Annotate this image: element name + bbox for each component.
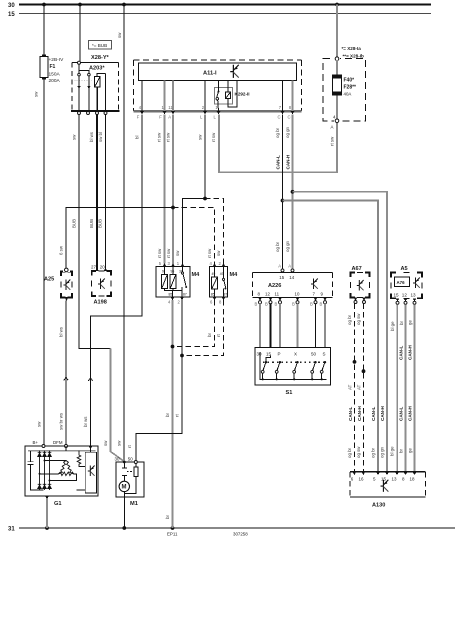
svg-text:AT: AT	[348, 384, 353, 390]
svg-text:18: 18	[410, 476, 416, 481]
svg-text:15: 15	[394, 293, 400, 298]
svg-text:A: A	[288, 264, 291, 269]
node BUB / pin A wire	[171, 206, 175, 210]
svg-text:6 sw: 6 sw	[59, 245, 64, 255]
G1 regulator glyph	[88, 466, 95, 477]
svg-text:BUB: BUB	[98, 219, 103, 228]
svg-text:30: 30	[179, 270, 183, 274]
A226 bottom plugs	[258, 298, 262, 301]
A130 top plugs	[353, 472, 357, 475]
note box *= BUB	[89, 41, 112, 50]
S1 15 hook link	[266, 356, 271, 362]
svg-text:CAN-H: CAN-H	[357, 406, 362, 421]
svg-text:bl ge: bl ge	[390, 321, 395, 331]
fuse F40/F28	[333, 60, 356, 121]
svg-text:13: 13	[411, 293, 417, 298]
svg-text:C: C	[288, 115, 291, 120]
A203 top connector circle	[78, 61, 81, 64]
svg-text:10: 10	[295, 292, 300, 297]
svg-text:A130: A130	[372, 503, 385, 509]
svg-text:150A: 150A	[49, 71, 61, 77]
A25 top connector	[63, 268, 70, 272]
svg-text:B: B	[310, 302, 313, 307]
G1 internal top bus	[28, 450, 96, 452]
A25 glyph	[64, 280, 71, 291]
wire A226 pin8 to S1 30	[259, 304, 261, 352]
svg-text:og br: og br	[275, 127, 280, 138]
svg-text:B: B	[275, 302, 278, 307]
M4 internal switch	[182, 267, 184, 273]
fuse F1	[40, 55, 64, 84]
M4 variant internal switch	[223, 267, 225, 279]
svg-text:og br: og br	[275, 241, 280, 252]
M4 variant top plugs	[213, 263, 217, 266]
svg-text:A: A	[168, 115, 171, 120]
svg-text:P: P	[278, 352, 281, 357]
svg-text:B+: B+	[33, 440, 39, 445]
wire A203 pin4 sw bl to A198 pin20	[105, 115, 107, 272]
wire rail30 to F1 to G1 B+ (sw)	[43, 5, 45, 447]
svg-text:15: 15	[381, 476, 387, 481]
wire A5 pin12 br to A130 pin8	[405, 304, 407, 472]
svg-text:11: 11	[168, 105, 173, 110]
A25 bottom plug	[65, 298, 69, 301]
A67 bottom plugs	[354, 298, 358, 301]
svg-text:CAN-H: CAN-H	[380, 406, 385, 421]
node on A67 CAN-H	[362, 369, 366, 373]
A11-I glyph	[230, 65, 239, 78]
relay coil	[225, 92, 230, 99]
M4 variant bottom plugs	[213, 297, 217, 300]
A5 bottom plugs	[396, 298, 400, 301]
G1 output plug	[45, 496, 49, 499]
wire A226 pin7 to S1 50	[315, 304, 317, 361]
ignition switch S1	[255, 348, 331, 397]
svg-text:C: C	[278, 115, 281, 120]
S1 switch X	[296, 361, 298, 363]
svg-text:X: X	[294, 352, 297, 357]
relay K292-II	[215, 88, 250, 105]
svg-text:A203*: A203*	[89, 66, 105, 72]
wire node to M4 pin1	[183, 199, 206, 264]
A226 bottom connector circles	[259, 301, 262, 304]
svg-text:49: 49	[212, 272, 216, 276]
M4 bottom plugs	[171, 297, 175, 300]
wire M4 pin2 rt to M1 50	[136, 300, 182, 460]
svg-text:sw bl: sw bl	[98, 132, 103, 142]
svg-text:sw: sw	[175, 250, 180, 256]
svg-text:13: 13	[392, 476, 398, 481]
svg-text:sw: sw	[117, 32, 122, 38]
node CAN-L branch	[281, 199, 285, 203]
svg-text:rt sw: rt sw	[157, 132, 162, 142]
svg-text:sw: sw	[197, 134, 202, 140]
node on rail 31 at G1	[45, 526, 49, 530]
svg-text:og sw: og sw	[356, 313, 361, 325]
A11-I body	[139, 63, 297, 81]
svg-text:sw: sw	[103, 440, 108, 446]
svg-text:A198: A198	[94, 300, 107, 306]
ECU A198	[92, 271, 111, 306]
A11-I internal drop pin8	[292, 81, 294, 112]
svg-text:EP11: EP11	[167, 532, 178, 537]
svg-text:F40*: F40*	[344, 78, 355, 84]
wire pin2L sw to fan node	[204, 115, 206, 199]
svg-text:br ws: br ws	[83, 416, 88, 427]
wire pinF rt sw to M4 pin5	[164, 115, 166, 264]
svg-text:11: 11	[275, 292, 280, 297]
svg-text:50: 50	[311, 352, 317, 357]
G1 resistor	[77, 451, 85, 467]
wire pin1L rt sw to X28 fuse	[219, 115, 337, 173]
A130 glyph	[381, 480, 389, 492]
svg-text:ge: ge	[408, 320, 413, 325]
svg-text:A: A	[331, 124, 334, 129]
svg-text:M1: M1	[130, 501, 138, 507]
dashed wire A67 CAN-H to A130 pin16	[363, 304, 365, 472]
svg-text:M4: M4	[192, 272, 201, 278]
relay contact	[218, 91, 220, 93]
node on A67 CAN-L	[353, 360, 357, 364]
starter M1	[116, 462, 144, 507]
svg-text:96: 96	[171, 270, 175, 274]
ECU A11-I dashed boundary	[134, 60, 302, 111]
svg-text:sw: sw	[117, 440, 122, 446]
S1 common bus	[260, 352, 327, 379]
dashed wire A67 CAN-L to A130 pin6	[354, 304, 356, 472]
dashed wire node to M4 variant pin2	[205, 199, 224, 264]
rail 30	[8, 3, 431, 9]
svg-text:85: 85	[211, 292, 215, 296]
svg-text:B: B	[292, 302, 295, 307]
svg-text:CAN-L: CAN-L	[276, 155, 281, 169]
svg-text:M4: M4	[230, 272, 239, 278]
svg-text:50: 50	[128, 457, 133, 462]
inline connector arrow	[64, 378, 68, 381]
wire M4 pin4 br to rail31	[172, 300, 174, 528]
svg-text:+2B-IV: +2B-IV	[49, 57, 65, 63]
svg-text:ge: ge	[408, 448, 413, 453]
A203 switch contact 1	[78, 73, 81, 76]
svg-text:og br: og br	[347, 314, 352, 325]
A11-I internal drop pin4	[141, 81, 143, 112]
svg-text:A: A	[278, 264, 281, 269]
svg-text:S1: S1	[286, 390, 293, 396]
svg-text:DFM: DFM	[53, 440, 63, 445]
dashed wire M4 variant pin8 to rt node	[182, 300, 224, 355]
A11-I internal drop pin1F	[164, 81, 166, 112]
svg-text:X28-Y*: X28-Y*	[91, 55, 110, 61]
relay coil return	[228, 81, 237, 108]
svg-text:rt sw: rt sw	[166, 248, 171, 258]
svg-text:F: F	[159, 115, 162, 120]
M4 top plugs	[163, 263, 167, 266]
svg-text:CAN-H: CAN-H	[407, 345, 412, 360]
svg-text:CAN-L: CAN-L	[348, 407, 353, 421]
wire A25 to G1 DFM (bl ws)	[65, 301, 67, 446]
relay feed wires	[219, 81, 229, 93]
resistor unit M4	[156, 267, 200, 298]
svg-text:9: 9	[162, 270, 164, 274]
svg-text:og br: og br	[347, 447, 352, 458]
svg-text:og gn: og gn	[285, 240, 290, 252]
svg-text:sw: sw	[37, 421, 42, 427]
M1 solenoid coil	[134, 467, 138, 477]
alternator G1	[25, 446, 98, 507]
node on rail 30 at F1	[42, 3, 46, 7]
A67 glyph	[357, 280, 364, 291]
svg-text:br: br	[399, 321, 404, 325]
svg-text:27: 27	[91, 265, 96, 270]
svg-text:15: 15	[279, 275, 284, 280]
svg-text:sw: sw	[216, 250, 221, 256]
A203 switch contact 2	[88, 73, 91, 76]
G1 terminal L plug	[89, 446, 93, 449]
G1 stator delta winding	[58, 461, 73, 476]
svg-text:S: S	[323, 352, 326, 357]
svg-text:og sw: og sw	[356, 446, 361, 458]
connector circle top of fuse box	[334, 57, 340, 61]
wire A203 pin1 sw to M1 30	[79, 115, 111, 349]
wire CAN-H branch to A130 pin15	[293, 192, 388, 472]
A5 glyph	[413, 278, 420, 289]
svg-text:B: B	[320, 302, 323, 307]
inline connector arrow	[88, 378, 92, 381]
wire rail30 to fuse F40	[336, 5, 338, 58]
svg-text:12: 12	[265, 292, 270, 297]
svg-text:F28**: F28**	[344, 85, 357, 91]
A11-I internal drop pin11A	[172, 81, 174, 112]
ECU A226	[253, 273, 333, 298]
wire rail30 to M1 30 (sw)	[123, 5, 125, 462]
wire A226 pin9 to S1 S	[324, 304, 326, 361]
M4 internal resistor 2	[172, 267, 174, 275]
node on rail 31 at M1	[122, 526, 126, 530]
svg-text:A5: A5	[401, 266, 408, 272]
svg-text:sw: sw	[34, 91, 39, 97]
sensor A25	[44, 272, 72, 298]
wire A203 pin3 bl ws to A198 pin27	[96, 115, 98, 272]
S1 switch S	[324, 361, 326, 363]
rail 15	[8, 12, 431, 18]
svg-text:sw br ws: sw br ws	[59, 412, 64, 430]
svg-text:rt sw: rt sw	[207, 248, 212, 258]
svg-text:200A: 200A	[49, 78, 61, 84]
M4 internal bus	[165, 287, 183, 297]
fuse holder X28 dashed box	[323, 59, 366, 121]
A198 glyph	[98, 279, 105, 290]
A226 glyph	[311, 279, 318, 290]
M1 solenoid contact	[122, 462, 127, 481]
S1 switch P	[279, 361, 281, 363]
svg-text:40A: 40A	[344, 92, 352, 97]
svg-text:A67: A67	[352, 266, 362, 272]
svg-text:rt sw: rt sw	[329, 136, 334, 146]
svg-text:B: B	[255, 302, 258, 307]
svg-text:**= X28-Ib: **= X28-Ib	[343, 54, 365, 59]
node CAN-H branch	[291, 190, 295, 194]
svg-text:A76: A76	[397, 280, 406, 285]
svg-text:bl ws: bl ws	[59, 326, 64, 337]
wire A226 pin10 to S1 X	[297, 304, 299, 361]
node on rail 31 at M4 br wire	[171, 526, 175, 530]
svg-text:12: 12	[402, 293, 408, 298]
svg-text:BUB: BUB	[72, 219, 77, 228]
wire M1 to rail31	[123, 492, 125, 528]
svg-text:br: br	[399, 449, 404, 453]
svg-text:bl ws: bl ws	[89, 131, 94, 142]
svg-text:br: br	[207, 333, 212, 337]
svg-text:rt sw: rt sw	[157, 248, 162, 258]
svg-text:F: F	[137, 115, 140, 120]
S1 switch 15	[265, 361, 267, 363]
node fan feed	[203, 197, 207, 201]
wire A226 pin12 to S1 15	[270, 304, 272, 355]
rail 31	[8, 526, 455, 532]
svg-text:CAN-H: CAN-H	[286, 154, 291, 169]
A11-I internal drop pin2L	[204, 81, 206, 112]
svg-text:85: 85	[169, 292, 173, 296]
node on rail 30 at starter feed	[122, 3, 126, 7]
A203 fuse element	[95, 73, 106, 111]
wire A226 pin11 to S1 P	[279, 304, 281, 361]
svg-text:30: 30	[8, 3, 15, 9]
svg-text:CAN-L: CAN-L	[398, 346, 403, 360]
S1 switch 50	[314, 361, 316, 363]
svg-text:rt sw: rt sw	[165, 132, 170, 142]
svg-text:30: 30	[115, 457, 120, 462]
A11-I pin plugs	[140, 111, 144, 114]
svg-text:15: 15	[8, 12, 15, 18]
M4 variant internal resistor	[214, 267, 216, 278]
dashed BUB branch to M4 variant pin4	[173, 208, 215, 264]
svg-text:rt sw: rt sw	[211, 132, 216, 142]
node on rail 30 at X28-Y	[78, 3, 82, 7]
svg-text:30: 30	[257, 352, 263, 357]
wire G1 to rail31	[46, 499, 48, 528]
node variant merge rt	[180, 354, 184, 358]
A203 internal switch bus	[79, 64, 89, 73]
svg-text:CAN-H: CAN-H	[407, 406, 412, 421]
svg-text:br: br	[165, 515, 170, 519]
svg-text:87: 87	[224, 292, 228, 296]
G1 capacitor	[28, 451, 44, 490]
svg-text:og br: og br	[371, 447, 376, 458]
svg-text:A11-I: A11-I	[203, 70, 217, 76]
svg-text:14: 14	[289, 275, 294, 280]
G1 winding connections	[40, 461, 77, 481]
svg-text:sw: sw	[72, 134, 77, 140]
svg-text:16: 16	[359, 476, 365, 481]
M1 motor	[119, 481, 129, 491]
G1 regulator box	[85, 452, 96, 493]
wire A5 pin13 ge to A130 pin18	[414, 304, 416, 472]
svg-text:87: 87	[183, 292, 187, 296]
node on rail 30 at X28-Ia feed	[335, 3, 339, 7]
svg-text:bl ge: bl ge	[390, 446, 395, 456]
svg-text:B: B	[265, 302, 268, 307]
module A76	[395, 277, 410, 287]
A203 gang dotted link	[74, 80, 91, 82]
wire pinA rt sw to M4 pin3	[172, 115, 174, 264]
node variant merge br	[171, 345, 175, 349]
S1 gang dotted line	[263, 361, 327, 363]
dashed wire M4 variant pin6 to br node	[173, 300, 215, 346]
svg-text:G1: G1	[54, 501, 62, 507]
wire A11-I pinF bl to G1 lamp terminal	[91, 115, 143, 447]
BUB wire A28 to pinA junction	[66, 208, 173, 271]
svg-text:F1: F1	[50, 64, 56, 70]
svg-text:*= BUB: *= BUB	[92, 43, 107, 48]
ECU A67	[351, 266, 370, 298]
ECU A130	[350, 472, 426, 509]
wire rail30 to A203	[79, 5, 81, 62]
svg-text:CAN-L: CAN-L	[398, 407, 403, 421]
G1 diode bridge	[38, 451, 52, 490]
A203 bottom connector circles	[78, 112, 81, 115]
A226 top connector circles	[281, 269, 284, 272]
wire CAN-L branch to A130 pin5	[283, 201, 379, 472]
ECU A5	[391, 266, 422, 298]
svg-text:*= X28-Ia: *= X28-Ia	[342, 46, 362, 51]
svg-text:og gn: og gn	[285, 126, 290, 138]
svg-text:BUB: BUB	[89, 219, 94, 228]
svg-text:AT: AT	[357, 384, 362, 390]
svg-text:M: M	[122, 485, 127, 491]
A11-I internal drop pin7	[282, 81, 284, 112]
resistor unit M4 variant	[210, 267, 239, 298]
svg-text:og gn: og gn	[380, 446, 385, 458]
A203 plug arrows	[77, 86, 81, 89]
M4 internal resistor 1	[164, 267, 166, 275]
svg-text:br: br	[165, 413, 170, 417]
svg-text:A226: A226	[268, 283, 281, 289]
svg-text:307258: 307258	[233, 532, 248, 537]
svg-text:CAN-L: CAN-L	[371, 407, 376, 421]
wire CAN-H og gn from A11-I pin8 to A226 pin14	[292, 115, 294, 269]
svg-text:A25: A25	[44, 277, 54, 283]
wire A5 pin15 bl ge to A130 pin13	[396, 304, 398, 472]
svg-text:31: 31	[8, 526, 15, 532]
wire CAN-L og br from A11-I pin7 to A226 pin15	[282, 115, 284, 269]
svg-text:49: 49	[220, 272, 224, 276]
svg-text:bl: bl	[135, 136, 140, 139]
connector block A203	[71, 63, 120, 112]
svg-text:20: 20	[100, 265, 105, 270]
